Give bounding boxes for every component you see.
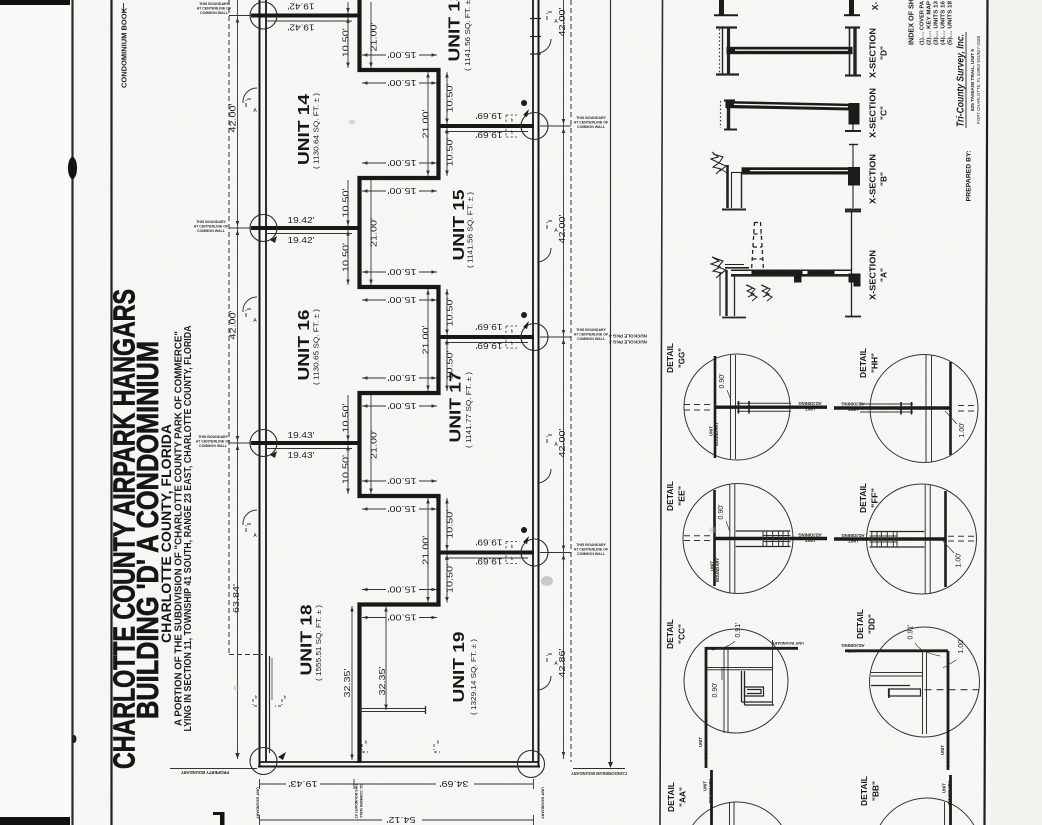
scan blob lower bbox=[72, 735, 77, 743]
10.50/21.00 dims west segment -10-70 bbox=[347, 2, 349, 14]
divider line between plan and details bbox=[660, 0, 663, 825]
step dim 15.00 above/below y=496 bbox=[362, 480, 437, 482]
x-section C bbox=[721, 100, 862, 131]
section A slab bbox=[731, 269, 851, 271]
right margin strip beyond sheet border bbox=[990, 0, 1042, 825]
unit18 inner wall lining bbox=[269, 656, 271, 753]
EE block wall grid bbox=[736, 530, 791, 532]
door arc west wall y=312 bbox=[243, 297, 257, 312]
detail GG bbox=[684, 354, 790, 460]
west monument circle y=443 bbox=[250, 430, 277, 457]
left margin strip bbox=[0, 0, 70, 825]
detail HH bbox=[870, 355, 978, 463]
east monument circle y=337 bbox=[521, 324, 548, 351]
section cut mark A east y=650 bbox=[547, 654, 553, 662]
door arc east wall y=676 bbox=[537, 676, 551, 690]
building west wall outer line bbox=[259, 0, 261, 766]
east party wall at y=126 bbox=[439, 124, 535, 128]
bush scribbles A below slab bbox=[746, 285, 757, 301]
bottom dim line 2 bbox=[260, 819, 534, 821]
east party wall at y=337 bbox=[439, 335, 535, 339]
step dim 15.00 above/below y=604.5 bbox=[362, 589, 437, 591]
door arc west wall y=103 bbox=[243, 88, 257, 103]
SW corner monument circle bbox=[250, 748, 277, 775]
east dashed boundary line bbox=[570, 0, 572, 762]
scanner black bar top-left bbox=[0, 0, 70, 5]
east party wall at y=552.5 bbox=[439, 551, 535, 555]
sawtooth interior unit-boundary wall bbox=[360, 0, 439, 763]
10.50/21.00 dims west segment 178-287 bbox=[347, 180, 349, 226]
building bottom wall inner bbox=[259, 761, 539, 763]
wall wedge marks bbox=[521, 100, 529, 117]
section A left post bbox=[725, 270, 727, 316]
sheet right border bbox=[985, 0, 988, 825]
detail DD bbox=[870, 627, 980, 737]
10.50/21.00 dims east segment 70-178 bbox=[446, 72, 448, 124]
step dim 15.00 above/below y=287 bbox=[362, 271, 437, 273]
dashed b-bracket y=337 bbox=[506, 325, 517, 327]
DD door rect bbox=[889, 689, 921, 696]
bottom-left legend fragment bbox=[220, 812, 225, 825]
step dim 15.00 above/below y=178 bbox=[362, 162, 437, 164]
west party wall at y=443 bbox=[251, 441, 361, 445]
tree scribble A left bbox=[711, 257, 726, 278]
plan right boundary line with end arrow bbox=[610, 0, 612, 766]
property boundary label bottom left bbox=[170, 768, 257, 770]
detail CC bbox=[684, 629, 788, 733]
door arc east wall y=39 bbox=[537, 39, 551, 53]
dashed cupola tower bbox=[752, 222, 764, 270]
CC door rect bbox=[745, 687, 764, 696]
step dim 15.00 above/below y=70 bbox=[362, 54, 437, 56]
section cut mark A east y=431 bbox=[547, 435, 553, 443]
building east wall outer line bbox=[538, 0, 540, 766]
10.50/21.00 dims east segment 496-604.5 bbox=[446, 498, 448, 551]
SE corner monument circle bbox=[518, 751, 545, 778]
west monument circle y=228 bbox=[250, 215, 277, 242]
door arc west wall y=525 bbox=[243, 510, 257, 525]
section A baseline bbox=[851, 212, 853, 317]
scanner black bar bottom-left bbox=[0, 817, 70, 825]
dashed b-bracket y=126 bbox=[506, 114, 517, 116]
building east wall inner line bbox=[532, 0, 534, 762]
section cut mark A west y=305 bbox=[246, 309, 252, 317]
west dashed property line bbox=[228, 0, 230, 654]
section cut mark A west y=95 bbox=[246, 99, 252, 107]
section A mid tick bbox=[795, 275, 802, 282]
scan blob upper bbox=[68, 157, 77, 179]
dashed b-bracket y=552.5 bbox=[506, 541, 517, 543]
detail EE bbox=[683, 484, 793, 594]
west party wall at y=228 bbox=[251, 226, 361, 230]
east wall tick marks bbox=[530, 18, 541, 20]
b marks unit18 bbox=[253, 699, 261, 706]
section cut mark A west y=520 bbox=[246, 524, 252, 532]
sheet left border bbox=[110, 0, 112, 825]
west party wall at y=15.5 bbox=[251, 14, 361, 18]
building west wall inner line bbox=[265, 0, 267, 762]
faint smudges bbox=[541, 576, 553, 586]
x-section D bbox=[716, 27, 861, 76]
door arc east wall y=248 bbox=[537, 248, 551, 262]
detail FF bbox=[867, 484, 977, 594]
detail AA (partial at bottom) bbox=[683, 802, 791, 825]
bottom dim line 1 bbox=[260, 783, 534, 785]
10.50/21.00 dims west segment 393-496 bbox=[347, 395, 349, 441]
west monument circle y=15.5 bbox=[250, 2, 277, 29]
east monument circle y=126 bbox=[521, 113, 548, 140]
scan fold line left edge bbox=[71, 0, 73, 825]
b marks near bottom x=434 bbox=[434, 744, 442, 752]
shrub scribble B bbox=[711, 152, 726, 174]
10.50/21.00 dims east segment 287-393 bbox=[446, 289, 448, 335]
east monument circle y=552.5 bbox=[521, 539, 548, 566]
x-section stub at top edge bbox=[719, 0, 724, 16]
section A right eave block bbox=[849, 274, 860, 286]
b marks near bottom x=362 bbox=[362, 744, 370, 752]
door arc east wall y=469 bbox=[537, 469, 551, 483]
building bottom wall outer bbox=[258, 766, 540, 768]
step dim 15.00 above/below y=393 bbox=[362, 377, 437, 379]
threshold line unit19 bbox=[361, 708, 426, 710]
west dimension line 42.00 column bbox=[237, 0, 239, 759]
east dimension line 42.00 column bbox=[563, 0, 565, 759]
section cut mark A east y=217 bbox=[547, 221, 553, 229]
detail BB (partial at bottom) bbox=[873, 798, 981, 825]
section cut mark A east y=8 bbox=[547, 12, 553, 20]
32.35 dims bbox=[351, 606, 353, 760]
